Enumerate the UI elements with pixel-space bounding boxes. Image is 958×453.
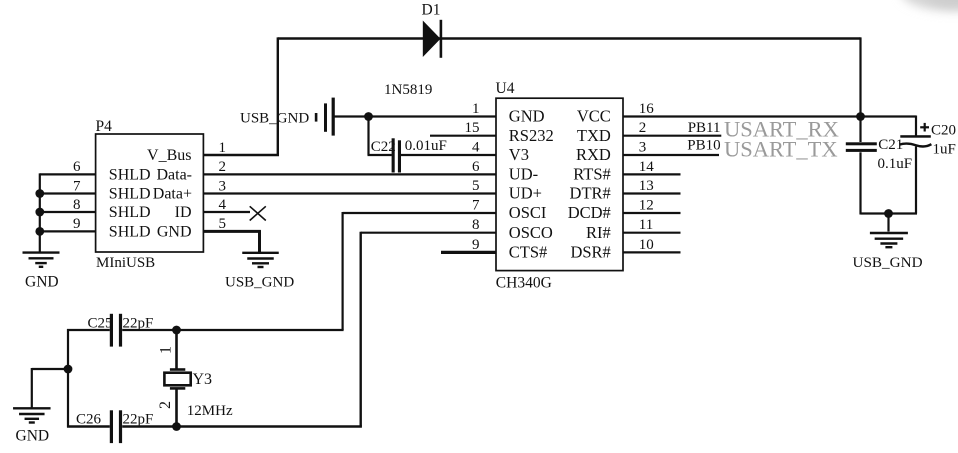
svg-text:USB_GND: USB_GND: [240, 110, 309, 126]
svg-text:C26: C26: [76, 412, 102, 428]
svg-text:2: 2: [157, 401, 174, 409]
svg-text:GND: GND: [25, 274, 59, 291]
svg-text:16: 16: [639, 101, 655, 117]
svg-text:1N5819: 1N5819: [384, 82, 432, 98]
svg-text:Data-: Data-: [156, 167, 192, 184]
svg-text:8: 8: [472, 217, 480, 233]
svg-text:RI#: RI#: [586, 223, 611, 242]
svg-text:2: 2: [639, 120, 647, 136]
svg-text:GND: GND: [16, 428, 50, 445]
svg-text:1: 1: [219, 140, 227, 156]
svg-text:4: 4: [472, 139, 480, 155]
svg-text:SHLD: SHLD: [109, 224, 151, 241]
svg-text:1: 1: [158, 346, 175, 354]
svg-text:GND: GND: [509, 107, 545, 126]
svg-text:CH340G: CH340G: [496, 275, 552, 292]
svg-text:Data+: Data+: [153, 186, 192, 203]
svg-text:OSCO: OSCO: [509, 223, 553, 242]
svg-text:13: 13: [639, 178, 654, 194]
svg-text:UD-: UD-: [509, 165, 538, 184]
svg-text:3: 3: [639, 139, 647, 155]
svg-text:14: 14: [639, 159, 655, 175]
svg-text:10: 10: [639, 237, 654, 253]
svg-text:Y3: Y3: [193, 371, 213, 388]
svg-text:USART_TX: USART_TX: [724, 136, 838, 161]
svg-text:UD+: UD+: [509, 184, 542, 203]
svg-text:V3: V3: [509, 145, 529, 164]
svg-text:8: 8: [73, 197, 81, 213]
svg-text:P4: P4: [96, 118, 113, 135]
svg-text:RS232: RS232: [509, 126, 554, 145]
svg-text:D1: D1: [422, 1, 441, 18]
svg-text:SHLD: SHLD: [109, 167, 151, 184]
svg-text:22pF: 22pF: [123, 412, 154, 428]
svg-text:1uF: 1uF: [933, 142, 956, 158]
svg-text:C20: C20: [931, 122, 956, 138]
svg-text:V_Bus: V_Bus: [147, 147, 191, 164]
svg-text:GND: GND: [157, 224, 192, 241]
svg-text:PB10: PB10: [687, 138, 720, 154]
svg-text:7: 7: [73, 178, 81, 194]
svg-text:ID: ID: [175, 204, 192, 221]
svg-text:RTS#: RTS#: [573, 165, 611, 184]
svg-text:9: 9: [73, 216, 81, 232]
svg-text:SHLD: SHLD: [109, 204, 151, 221]
svg-text:22pF: 22pF: [123, 315, 154, 331]
svg-text:C25: C25: [88, 315, 113, 331]
svg-text:3: 3: [219, 178, 227, 194]
svg-text:15: 15: [465, 120, 480, 136]
svg-text:5: 5: [472, 178, 480, 194]
svg-text:5: 5: [219, 216, 227, 232]
svg-text:DSR#: DSR#: [570, 243, 610, 262]
svg-text:MIniUSB: MIniUSB: [96, 255, 155, 271]
svg-text:PB11: PB11: [688, 120, 721, 136]
svg-text:7: 7: [472, 197, 480, 213]
svg-text:SHLD: SHLD: [109, 186, 151, 203]
svg-text:2: 2: [219, 159, 227, 175]
svg-text:DCD#: DCD#: [568, 203, 611, 222]
svg-text:CTS#: CTS#: [509, 243, 548, 262]
svg-text:C21: C21: [878, 137, 903, 153]
svg-text:U4: U4: [496, 80, 515, 97]
svg-text:0.1uF: 0.1uF: [878, 156, 913, 172]
svg-text:OSCI: OSCI: [509, 203, 547, 222]
svg-text:11: 11: [639, 217, 653, 233]
svg-text:VCC: VCC: [577, 107, 611, 126]
svg-text:6: 6: [472, 159, 480, 175]
svg-text:DTR#: DTR#: [570, 184, 611, 203]
svg-text:6: 6: [73, 159, 81, 175]
svg-text:C22: C22: [371, 139, 396, 155]
svg-text:USB_GND: USB_GND: [225, 275, 294, 291]
svg-text:9: 9: [472, 237, 480, 253]
svg-text:USB_GND: USB_GND: [853, 254, 923, 271]
svg-text:0.01uF: 0.01uF: [405, 138, 447, 154]
svg-text:12: 12: [639, 197, 654, 213]
svg-text:RXD: RXD: [576, 145, 611, 164]
svg-text:1: 1: [472, 101, 480, 117]
svg-text:TXD: TXD: [577, 126, 611, 145]
svg-text:4: 4: [219, 197, 227, 213]
svg-text:12MHz: 12MHz: [187, 403, 233, 419]
